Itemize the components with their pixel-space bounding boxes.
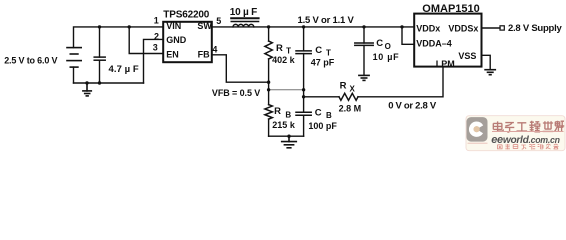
logo watermark plate bbox=[466, 116, 565, 151]
logo icon C ring bbox=[471, 124, 482, 135]
op-amp U2 OMAP1510 box bbox=[414, 14, 481, 67]
junction divider ground stub bbox=[287, 135, 290, 138]
svg-text:B: B bbox=[285, 110, 291, 119]
wire RX to OMAP LPM pin (0V or 2.8V net) bbox=[358, 67, 443, 97]
svg-text:5: 5 bbox=[216, 16, 221, 26]
junction FB wire at RT/RB bbox=[267, 81, 270, 84]
junction VDDA branch on output rail bbox=[400, 25, 403, 28]
wire SW output rail 1.5V/1.1V to OMAP VDDx bbox=[212, 26, 414, 28]
resistor RT 402k bbox=[265, 27, 272, 105]
capacitor CB 100pF bbox=[296, 112, 311, 136]
svg-text:47 pF: 47 pF bbox=[311, 57, 335, 67]
wire feedback node to RX bbox=[304, 96, 339, 98]
svg-text:VDDA–4: VDDA–4 bbox=[416, 38, 452, 48]
ground battery ground bbox=[83, 83, 91, 96]
svg-text:VFB = 0.5 V: VFB = 0.5 V bbox=[212, 88, 260, 98]
svg-text:VDDx: VDDx bbox=[416, 24, 440, 34]
wire feedback node link RT/RB to CT/CB bbox=[269, 89, 304, 91]
capacitor CO 10uF bbox=[355, 27, 373, 76]
junction CO top on output rail bbox=[362, 25, 365, 28]
svg-text:2.5 V to 6.0 V: 2.5 V to 6.0 V bbox=[4, 55, 57, 65]
junction CT top on output rail bbox=[302, 25, 305, 28]
svg-text:eeworld.com.cn: eeworld.com.cn bbox=[491, 134, 559, 146]
svg-text:X: X bbox=[350, 85, 356, 94]
wire GND pin 2 to ground rail bbox=[144, 39, 164, 83]
svg-text:0 V or 2.8 V: 0 V or 2.8 V bbox=[388, 100, 437, 111]
wire joining RB and CB bottoms bbox=[269, 135, 304, 137]
svg-text:10 µF: 10 µF bbox=[373, 52, 400, 62]
resistor RX 2.8M bbox=[339, 93, 358, 100]
svg-text:C: C bbox=[315, 108, 322, 119]
junction EN riser on input rail bbox=[128, 25, 131, 28]
svg-text:VDDSx: VDDSx bbox=[448, 24, 478, 34]
svg-text:TPS62200: TPS62200 bbox=[163, 9, 209, 20]
svg-text:EN: EN bbox=[166, 49, 179, 59]
wire bottom ground rail bbox=[74, 82, 144, 84]
svg-text:O: O bbox=[385, 42, 391, 51]
svg-text:R: R bbox=[340, 81, 347, 92]
svg-text:LPM: LPM bbox=[436, 59, 455, 69]
svg-text:1.5 V or 1.1 V: 1.5 V or 1.1 V bbox=[298, 15, 355, 26]
node 2.8V supply terminal square bbox=[500, 26, 504, 30]
junction C1 top on input rail bbox=[98, 25, 101, 28]
logo icon square bbox=[467, 117, 488, 142]
svg-text:C: C bbox=[315, 45, 322, 56]
wire FB pin 4 to feedback node bbox=[212, 55, 269, 82]
inductor L1 10uF bbox=[231, 18, 258, 27]
wire VDDSx to 2.8V supply terminal bbox=[482, 27, 501, 29]
svg-text:402 k: 402 k bbox=[272, 55, 296, 65]
capacitor CT 47pF bbox=[296, 27, 311, 112]
logo red underline bbox=[492, 131, 564, 133]
logo icon underline accent bbox=[468, 142, 488, 144]
svg-text:VSS: VSS bbox=[458, 51, 476, 61]
junction C1 bottom on ground rail bbox=[98, 81, 101, 84]
logo chinese title strokes bbox=[493, 121, 564, 132]
svg-text:B: B bbox=[326, 111, 332, 120]
wire EN riser tying pin 3 to input rail bbox=[129, 27, 163, 54]
ground divider ground bbox=[282, 136, 297, 148]
svg-text:R: R bbox=[274, 106, 281, 117]
junction RX wire at CT/CB bbox=[302, 95, 305, 98]
junction node link at CT/CB bbox=[302, 88, 305, 91]
svg-text:1: 1 bbox=[154, 16, 159, 26]
svg-text:2: 2 bbox=[154, 32, 159, 42]
junction RT top on output rail bbox=[267, 25, 270, 28]
ground VSS ground bbox=[485, 70, 495, 75]
svg-text:2.8 V Supply: 2.8 V Supply bbox=[508, 23, 563, 34]
svg-text:FB: FB bbox=[198, 49, 210, 59]
resistor RB 215k bbox=[265, 105, 272, 137]
svg-text:215 k: 215 k bbox=[272, 120, 296, 130]
svg-text:100 pF: 100 pF bbox=[308, 121, 337, 131]
svg-text:T: T bbox=[326, 48, 331, 57]
svg-text:GND: GND bbox=[166, 35, 187, 45]
svg-text:4: 4 bbox=[212, 44, 217, 54]
svg-text:3: 3 bbox=[153, 42, 158, 52]
svg-text:SW: SW bbox=[197, 21, 212, 31]
wire rail branch to VDDA-4 pin bbox=[402, 27, 414, 44]
junction node link at RT/RB bbox=[267, 88, 270, 91]
junction battery ground on ground rail bbox=[85, 81, 88, 84]
capacitor C1 4.7uF bbox=[94, 27, 105, 83]
ground CO ground bbox=[359, 75, 369, 80]
wire battery negative lead bbox=[73, 67, 75, 83]
logo icon center dot bbox=[474, 126, 480, 132]
svg-text:2.8 M: 2.8 M bbox=[339, 103, 362, 113]
svg-text:C: C bbox=[376, 38, 383, 49]
logo small slogan strokes bbox=[498, 144, 559, 150]
svg-text:4.7 µ F: 4.7 µ F bbox=[109, 64, 139, 75]
battery 2.5V-6.0V bbox=[67, 48, 81, 68]
svg-text:OMAP1510: OMAP1510 bbox=[422, 3, 479, 15]
svg-text:VIN: VIN bbox=[166, 21, 181, 31]
svg-text:10 µ F: 10 µ F bbox=[230, 7, 257, 18]
svg-text:T: T bbox=[286, 47, 291, 56]
svg-text:R: R bbox=[276, 43, 283, 54]
wire VSS pin to ground bbox=[482, 55, 491, 69]
wire input rail from battery to VIN pin 1 bbox=[74, 27, 164, 48]
op-amp U1 TPS62200 box bbox=[163, 22, 212, 62]
